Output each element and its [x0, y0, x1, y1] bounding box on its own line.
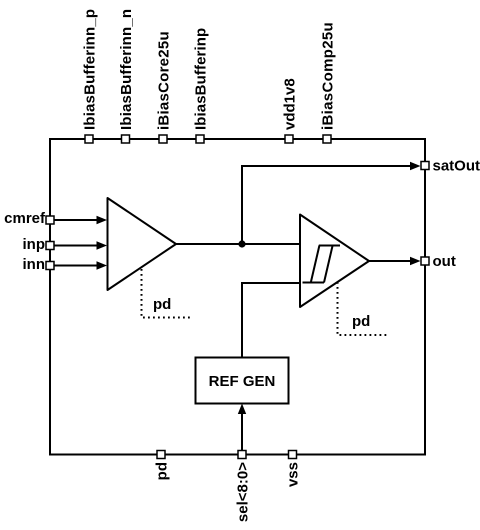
svg-text:IbiasBufferinn_n: IbiasBufferinn_n — [118, 9, 135, 130]
wire inn to amp — [55, 261, 108, 269]
wire amp output to comparator — [176, 243, 300, 245]
pin inn — [23, 256, 55, 273]
pin pd — [154, 451, 171, 481]
label pd (amp) — [153, 296, 171, 313]
wire cmref to amp — [55, 216, 108, 224]
pin IbiasBufferinn_n — [118, 9, 135, 143]
svg-text:iBiasCore25u: iBiasCore25u — [156, 31, 173, 130]
wire inp to amp — [55, 241, 108, 249]
pin inp — [23, 236, 55, 253]
svg-text:pd: pd — [153, 296, 171, 313]
pin cmref — [4, 210, 54, 227]
svg-text:vdd1v8: vdd1v8 — [282, 78, 299, 130]
svg-text:cmref: cmref — [4, 210, 46, 227]
pin iBiasCore25u — [156, 31, 173, 143]
svg-text:sel<8:0>: sel<8:0> — [235, 462, 252, 522]
boundary rectangle — [50, 139, 425, 455]
pin vss — [285, 451, 302, 488]
wire comparator output to out pin — [369, 257, 421, 265]
wire junction to satOut — [242, 162, 421, 244]
node junction dot — [238, 240, 245, 247]
svg-text:satOut: satOut — [433, 158, 480, 175]
label pd (comparator) — [352, 313, 370, 330]
svg-text:REF GEN: REF GEN — [209, 373, 276, 390]
svg-text:out: out — [433, 253, 456, 270]
svg-text:IbiasBufferinp: IbiasBufferinp — [193, 28, 210, 130]
svg-text:pd: pd — [352, 313, 370, 330]
op-amp A1 (input buffer amp) — [108, 198, 177, 290]
svg-text:iBiasComp25u: iBiasComp25u — [320, 22, 337, 130]
block REF GEN — [196, 358, 289, 404]
pin iBiasComp25u — [320, 22, 337, 143]
wire REF GEN to comparator lower input — [242, 283, 300, 358]
svg-text:inp: inp — [23, 236, 46, 253]
pin vdd1v8 — [282, 78, 299, 143]
pin satOut — [421, 158, 480, 175]
dotted pd enable line of comparator — [338, 282, 390, 335]
svg-text:inn: inn — [23, 256, 46, 273]
pin IbiasBufferinp — [193, 28, 210, 143]
svg-text:IbiasBufferinn_p: IbiasBufferinn_p — [82, 9, 99, 130]
svg-text:pd: pd — [154, 462, 171, 480]
comparator U2 (schmitt) — [300, 215, 369, 308]
dotted pd enable line of amp — [142, 269, 193, 318]
svg-text:vss: vss — [285, 462, 302, 487]
pin sel<8:0> — [235, 451, 252, 523]
pin IbiasBufferinn_p — [82, 9, 99, 143]
wire sel to REF GEN — [238, 404, 246, 451]
pin out — [421, 253, 456, 270]
